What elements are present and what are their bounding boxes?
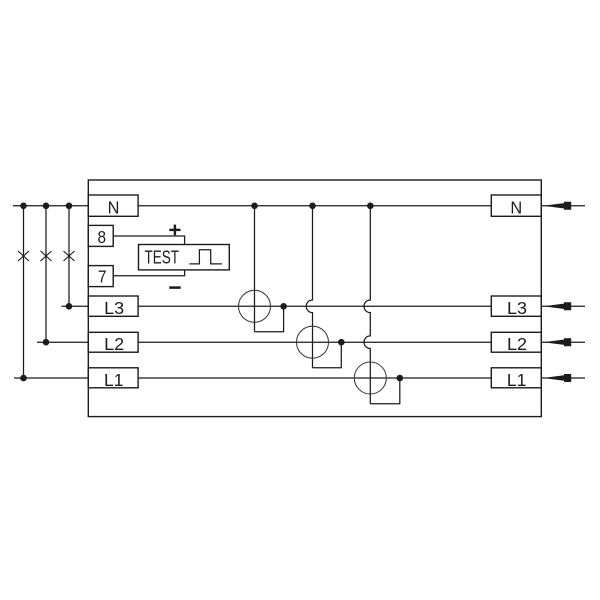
svg-text:L3: L3 xyxy=(104,298,124,318)
wire supply drop 3 vertical xyxy=(68,206,70,306)
junction drop1 / L1 stub xyxy=(20,375,27,382)
wire stub into L3 left xyxy=(62,305,89,307)
wire load L3 with arrow xyxy=(541,302,585,310)
junction supply N / phase A drop xyxy=(20,203,27,210)
junction N bus / CT3 tap xyxy=(367,203,374,210)
terminal L2 left xyxy=(88,332,138,352)
wire bus N internal xyxy=(138,205,491,207)
terminal 7 xyxy=(88,266,113,287)
junction drop2 / L2 stub xyxy=(43,339,50,346)
device outline box xyxy=(88,180,541,417)
svg-text:L3: L3 xyxy=(507,298,527,318)
polarity minus sign xyxy=(169,286,180,289)
wire CT1 loop bottom xyxy=(255,306,284,332)
wire supply drop 2 vertical xyxy=(45,206,47,342)
svg-text:7: 7 xyxy=(98,267,107,287)
wire stub into L1 left xyxy=(14,377,88,379)
terminal N right xyxy=(491,195,541,216)
svg-text:TEST: TEST xyxy=(145,247,180,268)
terminal N left xyxy=(88,195,138,216)
fuse mark X1 xyxy=(18,251,29,261)
wire load L1 with arrow xyxy=(541,374,585,382)
svg-text:L1: L1 xyxy=(507,370,527,390)
wire CT1 tap vertical xyxy=(254,206,256,332)
wire CT3 loop bottom xyxy=(370,378,400,404)
wire bus L1 internal xyxy=(138,377,491,379)
terminal 8 xyxy=(88,225,113,246)
terminal L1 left xyxy=(88,368,138,388)
wire terminal 8 to TEST xyxy=(113,236,184,245)
svg-text:L1: L1 xyxy=(104,370,124,390)
terminal L1 right xyxy=(491,368,541,388)
svg-text:L2: L2 xyxy=(507,334,527,354)
wire load L2 with arrow xyxy=(541,338,585,346)
junction CT2 loop / L2 bus xyxy=(338,339,345,346)
wire CT2 tap vertical with hop over L3 xyxy=(306,206,312,368)
current transformer CT3 xyxy=(354,362,386,394)
wire CT2 loop bottom xyxy=(313,342,342,368)
wire supply drop 1 vertical xyxy=(23,206,25,378)
junction supply N / phase C drop xyxy=(66,203,73,210)
terminal L2 right xyxy=(491,332,541,352)
wire supply N horizontal xyxy=(13,205,88,207)
current transformer CT2 xyxy=(297,326,329,358)
wire CT3 tap vertical with hops over L3 and L2 xyxy=(364,206,370,404)
polarity plus sign xyxy=(169,225,180,236)
fuse mark X2 xyxy=(41,251,52,261)
svg-text:8: 8 xyxy=(98,227,107,247)
wire stub into L2 left xyxy=(37,341,88,343)
junction CT1 loop / L3 bus xyxy=(280,303,287,310)
junction supply N / phase B drop xyxy=(43,203,50,210)
wire bus L2 internal xyxy=(138,341,491,343)
junction N bus / CT1 tap xyxy=(251,203,258,210)
junction CT3 loop / L1 bus xyxy=(397,375,404,382)
terminal L3 left xyxy=(88,296,138,316)
svg-text:N: N xyxy=(510,197,522,217)
svg-text:L2: L2 xyxy=(104,334,124,354)
terminal L3 right xyxy=(491,296,541,316)
junction N bus / CT2 tap xyxy=(309,203,316,210)
svg-text:N: N xyxy=(108,197,120,217)
pulse symbol xyxy=(189,250,222,264)
wire load N with arrow xyxy=(541,202,585,210)
wire terminal 7 to TEST xyxy=(113,270,184,276)
junction drop3 / L3 stub xyxy=(66,303,73,310)
fuse mark X3 xyxy=(64,251,75,261)
current transformer CT1 xyxy=(239,290,271,322)
test button box U1 xyxy=(139,245,230,270)
wire bus L3 internal xyxy=(138,305,491,307)
